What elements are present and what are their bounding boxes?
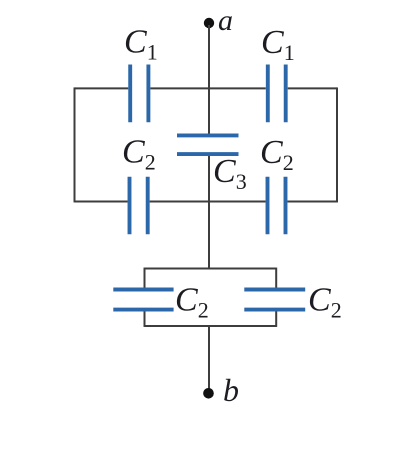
wire lower box right edge upper segment — [275, 268, 277, 288]
node a — [204, 18, 214, 28]
wire lower box bottom edge — [145, 325, 277, 327]
wire lower box to node b — [208, 326, 210, 390]
capacitor C2 upper-left plates — [130, 177, 148, 235]
wire upper box top edge right segment — [288, 87, 337, 89]
capacitor C2 lower-right plates — [244, 290, 305, 310]
wire lower box left edge lower segment — [144, 312, 146, 327]
wire upper box bottom edge right segment — [288, 201, 338, 203]
capacitor C1 right plates — [268, 65, 286, 123]
capacitor C3 plates — [177, 135, 239, 154]
wire upper box bottom edge middle segment — [150, 201, 266, 203]
wire upper box bottom edge left segment — [75, 201, 128, 203]
capacitor C2 upper-right plates — [268, 177, 286, 235]
wire lower box top edge — [145, 268, 277, 270]
wire a to C3 top plate — [208, 25, 210, 134]
wire lower box left edge upper segment — [144, 268, 146, 288]
capacitor C2 lower-left plates — [113, 290, 173, 310]
node b — [203, 388, 214, 399]
wire upper box right edge — [336, 87, 338, 202]
wire lower box right edge lower segment — [275, 312, 277, 327]
wire upper box top edge middle segment — [150, 87, 265, 89]
wire C3 bottom plate to lower box — [208, 156, 210, 269]
wire upper box top edge left segment — [75, 87, 129, 89]
svg-text:a: a — [218, 4, 233, 37]
svg-text:b: b — [223, 372, 239, 408]
wire upper box left edge — [74, 87, 76, 202]
capacitor C1 left plates — [130, 65, 148, 123]
